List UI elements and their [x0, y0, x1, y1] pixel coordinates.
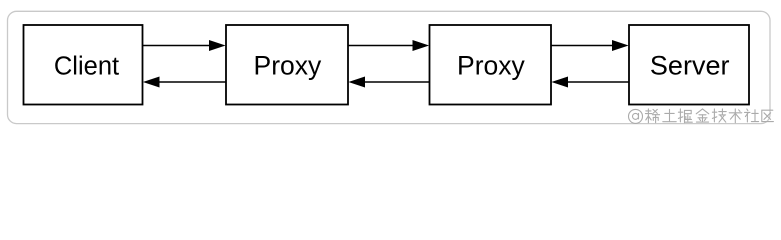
watermark glyph 稀: [645, 109, 659, 123]
box Proxy1: [226, 25, 348, 105]
box Server: [629, 25, 749, 105]
watermark glyph 区: [762, 110, 774, 121]
wire arrow Proxy1 to Client (bottom, leftward): [143, 77, 226, 88]
wire arrow Proxy2 to Proxy1 (bottom, leftward): [348, 77, 429, 88]
wire arrow Proxy2 to Server (top, rightward): [551, 40, 629, 51]
box Proxy2: [430, 25, 552, 105]
wire arrow Proxy1 to Proxy2 (top, rightward): [348, 40, 429, 51]
svg-text:Proxy: Proxy: [457, 51, 525, 81]
watermark glyph 技: [712, 109, 726, 122]
watermark glyph 社: [745, 109, 759, 122]
svg-text:Proxy: Proxy: [254, 51, 322, 81]
watermark glyph 掘: [678, 109, 692, 123]
watermark @稀土掘金技术社区 (drawn glyphs): [629, 109, 774, 124]
svg-text:Client: Client: [54, 53, 119, 81]
watermark glyph 土: [663, 109, 676, 121]
watermark glyph @: [629, 109, 643, 123]
watermark glyph 术: [729, 109, 742, 123]
svg-text:Server: Server: [650, 51, 730, 81]
wire arrow Server to Proxy2 (bottom, leftward): [551, 77, 629, 88]
watermark glyph 金: [696, 109, 709, 122]
outer rounded frame: [8, 11, 771, 123]
wire arrow Client to Proxy1 (top, rightward): [143, 40, 226, 51]
box Client: [24, 25, 143, 105]
